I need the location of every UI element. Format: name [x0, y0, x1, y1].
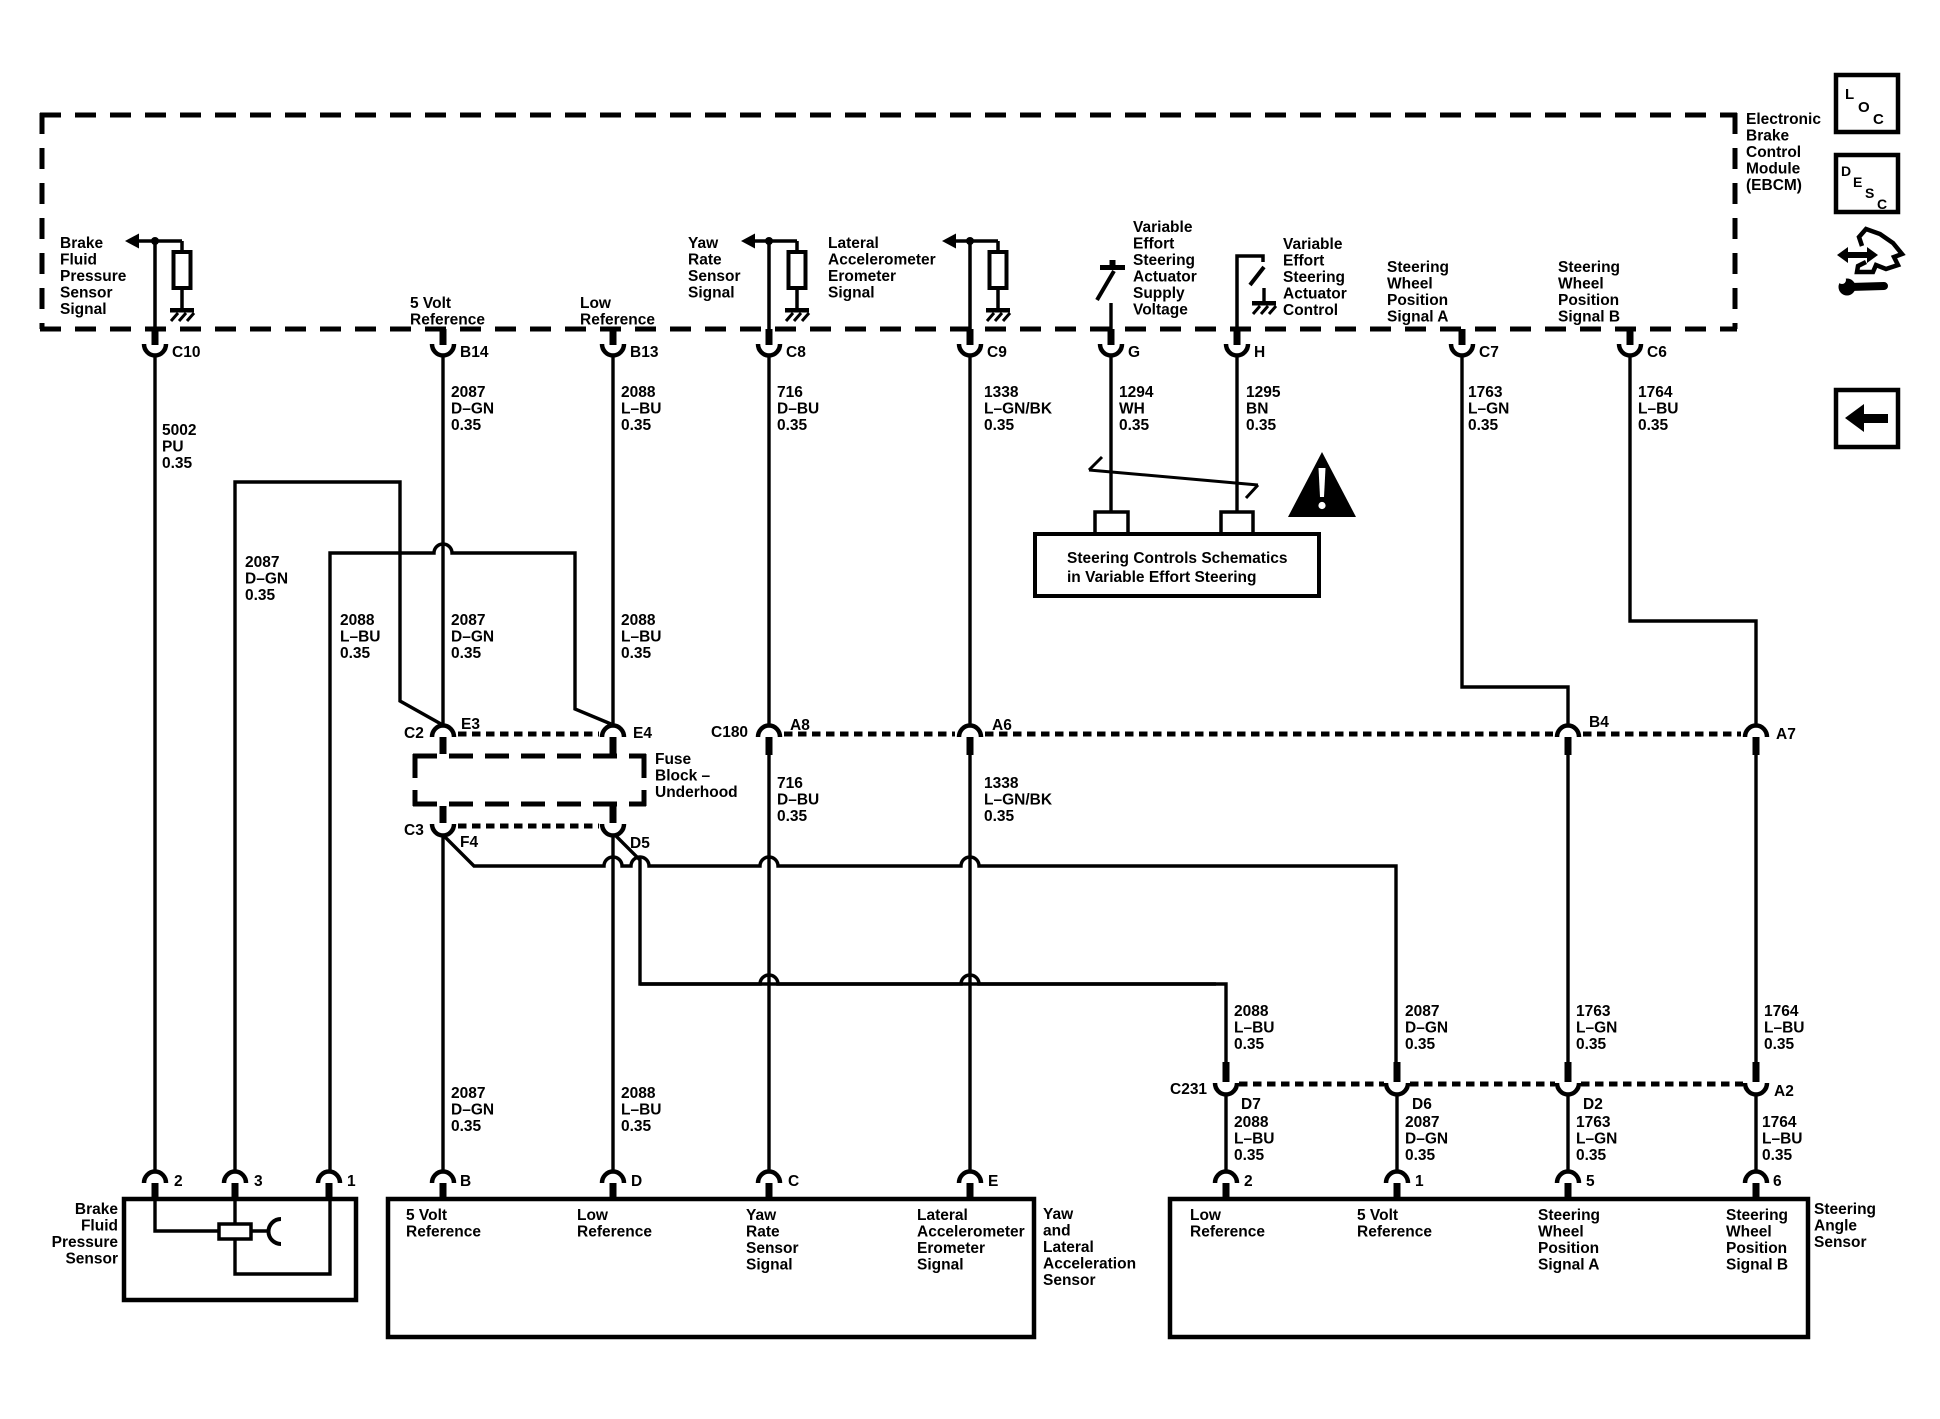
DESC icon box: [1836, 155, 1898, 212]
svg-text:SteeringWheelPositionSignal B: SteeringWheelPositionSignal B: [1726, 1207, 1788, 1274]
pin stub B14: [440, 329, 447, 345]
resistor pull-up C10: [174, 252, 191, 288]
pin stub G: [1108, 329, 1115, 345]
sensor pin 1: [318, 1172, 340, 1184]
svg-text:C9: C9: [987, 344, 1007, 361]
adjust icon wrench: [1838, 276, 1884, 296]
wire pin 3 to resistor: [233, 1199, 236, 1224]
svg-text:D: D: [1841, 163, 1851, 179]
wire 2088 L-BU B13 to E4: [611, 357, 614, 725]
wire to ground H: [1262, 288, 1265, 301]
fuse block underhood dashed box: [413, 754, 646, 806]
svg-text:C3: C3: [404, 822, 424, 839]
junction at C9 internal node: [966, 237, 974, 245]
svg-text:B14: B14: [460, 344, 489, 361]
wire 1338 L-GN/BK A6 to yaw sensor pin E: [968, 755, 971, 1171]
wire 1295 BN H to steering controls: [1235, 357, 1238, 512]
svg-text:E3: E3: [461, 716, 480, 733]
arrow into EBCM at C8: [741, 234, 755, 249]
pin stub C7: [1459, 329, 1466, 345]
sensor pin E: [959, 1172, 981, 1184]
svg-text:VariableEffortSteeringActuator: VariableEffortSteeringActuatorSupplyVolt…: [1133, 219, 1197, 319]
sensor pin stub D: [610, 1183, 617, 1199]
wire pin 1 to resistor bottom: [235, 1199, 330, 1274]
svg-text:S: S: [1865, 185, 1874, 201]
svg-text:H: H: [1254, 344, 1265, 361]
sensor pin stub 2: [1223, 1183, 1230, 1199]
svg-text:C180: C180: [711, 724, 748, 741]
pin stub D2: [1565, 1062, 1572, 1082]
wire G internal: [1109, 303, 1112, 329]
wire 2088 L-BU D7 to steering angle sensor pin 2: [1224, 1094, 1227, 1171]
ground internal C10: [170, 308, 194, 321]
svg-text:C: C: [1873, 111, 1884, 128]
svg-text:SteeringWheelPositionSignal A: SteeringWheelPositionSignal A: [1387, 259, 1449, 326]
off-page indicator slash: [1089, 457, 1258, 498]
sensor pin 2: [1215, 1172, 1237, 1184]
arrow into EBCM at C10: [125, 234, 139, 249]
pin stub D7: [1223, 1062, 1230, 1082]
connector C180 pin A8: [758, 726, 780, 737]
pin stub E4: [610, 737, 617, 754]
resistor element brake fluid pressure sensor: [219, 1224, 251, 1239]
dotted line connector C3 row: [458, 824, 599, 829]
svg-text:SteeringWheelPositionSignal A: SteeringWheelPositionSignal A: [1538, 1207, 1600, 1274]
svg-text:6: 6: [1773, 1173, 1782, 1190]
wire 1764 L-BU A2 to steering angle sensor pin 6: [1754, 1094, 1757, 1171]
sensor pin 2: [144, 1172, 166, 1184]
adjust icon outline: [1857, 229, 1902, 272]
svg-text:A7: A7: [1776, 726, 1796, 743]
wire 716 D-BU C8 to C180 A8: [767, 357, 770, 726]
dotted line connector C180 row: [784, 732, 1741, 737]
svg-text:C: C: [788, 1173, 799, 1190]
junction at C8 internal node: [765, 237, 773, 245]
svg-text:D2: D2: [1583, 1096, 1603, 1113]
svg-text:D5: D5: [630, 835, 650, 852]
wire 2088 L-BU D5 to C231 D7 with bridges: [640, 975, 1226, 1062]
sensor pin D: [602, 1172, 624, 1184]
pin stub C6: [1627, 329, 1634, 345]
sensor pin stub B: [440, 1183, 447, 1199]
svg-text:C: C: [1877, 196, 1887, 212]
pin stub B4: [1565, 737, 1572, 755]
Brake Fluid Pressure Sensor box: [124, 1199, 356, 1300]
svg-text:C10: C10: [172, 344, 200, 361]
wire 2088 L-BU pin 1 branch to E4 with bridge: [330, 544, 611, 1171]
svg-text:VariableEffortSteeringActuator: VariableEffortSteeringActuatorControl: [1283, 236, 1347, 319]
wire resistor to wiper: [251, 1229, 268, 1232]
pin stub D6: [1394, 1062, 1401, 1082]
connector C3 pin F4: [432, 824, 454, 836]
sensor pin B: [432, 1172, 454, 1184]
terminal bracket at H: [1221, 512, 1253, 534]
wire C9 junction to pin: [968, 241, 972, 329]
wire 1294 WH G to steering controls: [1109, 357, 1112, 512]
Yaw and Lateral Acceleration Sensor box: [388, 1199, 1034, 1337]
wire 1763 L-GN D2 to steering angle sensor pin 5: [1566, 1094, 1569, 1171]
switch contact G: [1097, 260, 1125, 300]
svg-text:SteeringWheelPositionSignal B: SteeringWheelPositionSignal B: [1558, 259, 1620, 326]
pin stub D5: [610, 806, 617, 823]
back arrow icon box: [1836, 390, 1898, 447]
wire C8 junction to pin: [767, 241, 771, 329]
pin stub H: [1234, 329, 1241, 345]
sensor pin stub C: [766, 1183, 773, 1199]
sensor pin stub 6: [1753, 1183, 1760, 1199]
pin stub A6: [967, 737, 974, 755]
wire 1338 L-GN/BK C9 to C180 A6: [968, 357, 971, 726]
pin stub C9: [967, 329, 974, 345]
ground internal H: [1252, 301, 1276, 314]
svg-text:A2: A2: [1774, 1083, 1794, 1100]
svg-text:D6: D6: [1412, 1096, 1432, 1113]
connector pin B14: [432, 344, 454, 356]
wire 2087 D-GN B14 to E3: [441, 357, 444, 725]
resistor pull-up C9: [990, 252, 1007, 288]
resistor pull-up C8: [789, 252, 806, 288]
pin stub C8: [766, 329, 773, 345]
sensor pin 5: [1557, 1172, 1579, 1184]
wire internal C8: [754, 239, 797, 243]
wire 1763 L-GN B4 to C231 D2: [1566, 755, 1569, 1062]
sensor pin stub E: [967, 1183, 974, 1199]
pin stub C3: [440, 806, 447, 823]
svg-text:A6: A6: [992, 717, 1012, 734]
sensor pin stub 3: [232, 1183, 239, 1199]
pin stub B13: [610, 329, 617, 345]
svg-text:E4: E4: [633, 725, 652, 742]
arrow into EBCM at C9: [942, 234, 956, 249]
wire internal C10: [138, 239, 182, 243]
svg-text:1: 1: [347, 1173, 356, 1190]
svg-text:C6: C6: [1647, 344, 1667, 361]
svg-text:L: L: [1845, 86, 1854, 103]
sensor pin stub 1: [326, 1183, 333, 1199]
terminal bracket at G: [1095, 512, 1128, 534]
svg-text:B: B: [460, 1173, 471, 1190]
svg-text:D: D: [631, 1173, 642, 1190]
wire 2087 D-GN C3 to yaw sensor pin B: [441, 835, 444, 1171]
svg-text:D7: D7: [1241, 1096, 1261, 1113]
svg-text:2: 2: [1244, 1173, 1253, 1190]
EBCM module dashed box: [40, 113, 1737, 329]
svg-text:B13: B13: [630, 344, 659, 361]
wire H internal with top bar: [1237, 256, 1263, 329]
wire 1764 L-BU C6 to C180 A7: [1630, 357, 1756, 726]
connector pin C7: [1451, 344, 1473, 356]
connector C231 pin A2: [1745, 1083, 1767, 1095]
wire 2087 D-GN pin 3 branch to E3: [235, 482, 441, 1171]
sensor pin 6: [1745, 1172, 1767, 1184]
svg-text:1: 1: [1415, 1173, 1424, 1190]
connector pin H: [1226, 344, 1248, 356]
ground internal C8: [785, 308, 809, 321]
connector C231 pin D7: [1215, 1083, 1237, 1095]
svg-text:A8: A8: [790, 717, 810, 734]
sensor pin stub 2: [152, 1183, 159, 1199]
steering controls schematics box: [1035, 534, 1319, 596]
wire 2088 L-BU D5 branch vertical: [616, 836, 1216, 984]
connector C180 pin B4: [1557, 726, 1579, 737]
junction at C10 internal node: [151, 237, 159, 245]
wire internal C9: [955, 239, 998, 243]
Steering Angle Sensor box: [1170, 1199, 1808, 1337]
svg-text:B4: B4: [1589, 714, 1609, 731]
wire resistor leads C10: [180, 241, 184, 308]
connector pin C6: [1619, 344, 1641, 356]
connector pin C8: [758, 344, 780, 356]
svg-text:3: 3: [254, 1173, 263, 1190]
dotted line connector C2 row: [458, 732, 599, 737]
svg-text:E: E: [988, 1173, 998, 1190]
warning triangle icon: [1288, 452, 1356, 517]
sensor pin stub 1: [1394, 1183, 1401, 1199]
connector pin C9: [959, 344, 981, 356]
svg-text:C7: C7: [1479, 344, 1499, 361]
sensor pin C: [758, 1172, 780, 1184]
svg-text:5: 5: [1586, 1173, 1595, 1190]
wire 2087 D-GN F4 to C231 D6 with bridges: [444, 836, 1396, 1062]
connector C180 pin A7: [1745, 726, 1767, 737]
connector C2 pin E3: [432, 726, 454, 737]
pin stub E3: [440, 737, 447, 754]
connector pin C10: [144, 344, 166, 356]
connector pin G: [1100, 344, 1122, 356]
wire pin 2 to resistor: [155, 1199, 219, 1231]
wire 5002 PU C10 to brake fluid pressure sensor pin 2: [153, 357, 156, 1171]
LOC icon box: [1836, 75, 1898, 132]
connector C231 pin D6: [1386, 1083, 1408, 1095]
connector C3 pin D5: [602, 824, 624, 836]
wire 1764 L-BU A7 to C231 A2: [1754, 755, 1757, 1062]
wire resistor leads C9: [996, 241, 1000, 308]
wire C10 junction to pin: [153, 241, 157, 329]
switch lever H: [1250, 267, 1264, 285]
connector C231 pin D2: [1557, 1083, 1579, 1095]
wire 2088 L-BU D5 to yaw sensor pin D: [611, 835, 614, 1171]
connector C180 pin A6: [959, 726, 981, 737]
pin stub A2: [1753, 1062, 1760, 1082]
wiper contact symbol: [269, 1219, 282, 1244]
svg-text:C231: C231: [1170, 1081, 1207, 1098]
sensor pin stub 5: [1565, 1183, 1572, 1199]
pin stub A7: [1753, 737, 1760, 755]
connector pin B13: [602, 344, 624, 356]
svg-text:C2: C2: [404, 725, 424, 742]
connector C2 pin E4: [602, 726, 624, 737]
svg-text:O: O: [1858, 99, 1870, 116]
svg-text:G: G: [1128, 344, 1140, 361]
sensor pin 3: [224, 1172, 246, 1184]
svg-text:2: 2: [174, 1173, 183, 1190]
adjust icon double arrow: [1837, 247, 1878, 263]
pin stub C10: [152, 329, 159, 345]
pin stub A8: [766, 737, 773, 755]
dashed line connector C231 row: [1239, 1082, 1743, 1087]
svg-text:F4: F4: [460, 834, 478, 851]
wire 716 D-BU A8 to yaw sensor pin C: [767, 755, 770, 1171]
wire resistor leads C8: [795, 241, 799, 308]
wire 2087 D-GN D6 to steering angle sensor pin 1: [1395, 1094, 1398, 1171]
ground internal C9: [986, 308, 1010, 321]
wire 1763 L-GN C7 to C180 B4: [1462, 357, 1568, 726]
svg-text:E: E: [1853, 174, 1862, 190]
sensor pin 1: [1386, 1172, 1408, 1184]
svg-text:C8: C8: [786, 344, 806, 361]
